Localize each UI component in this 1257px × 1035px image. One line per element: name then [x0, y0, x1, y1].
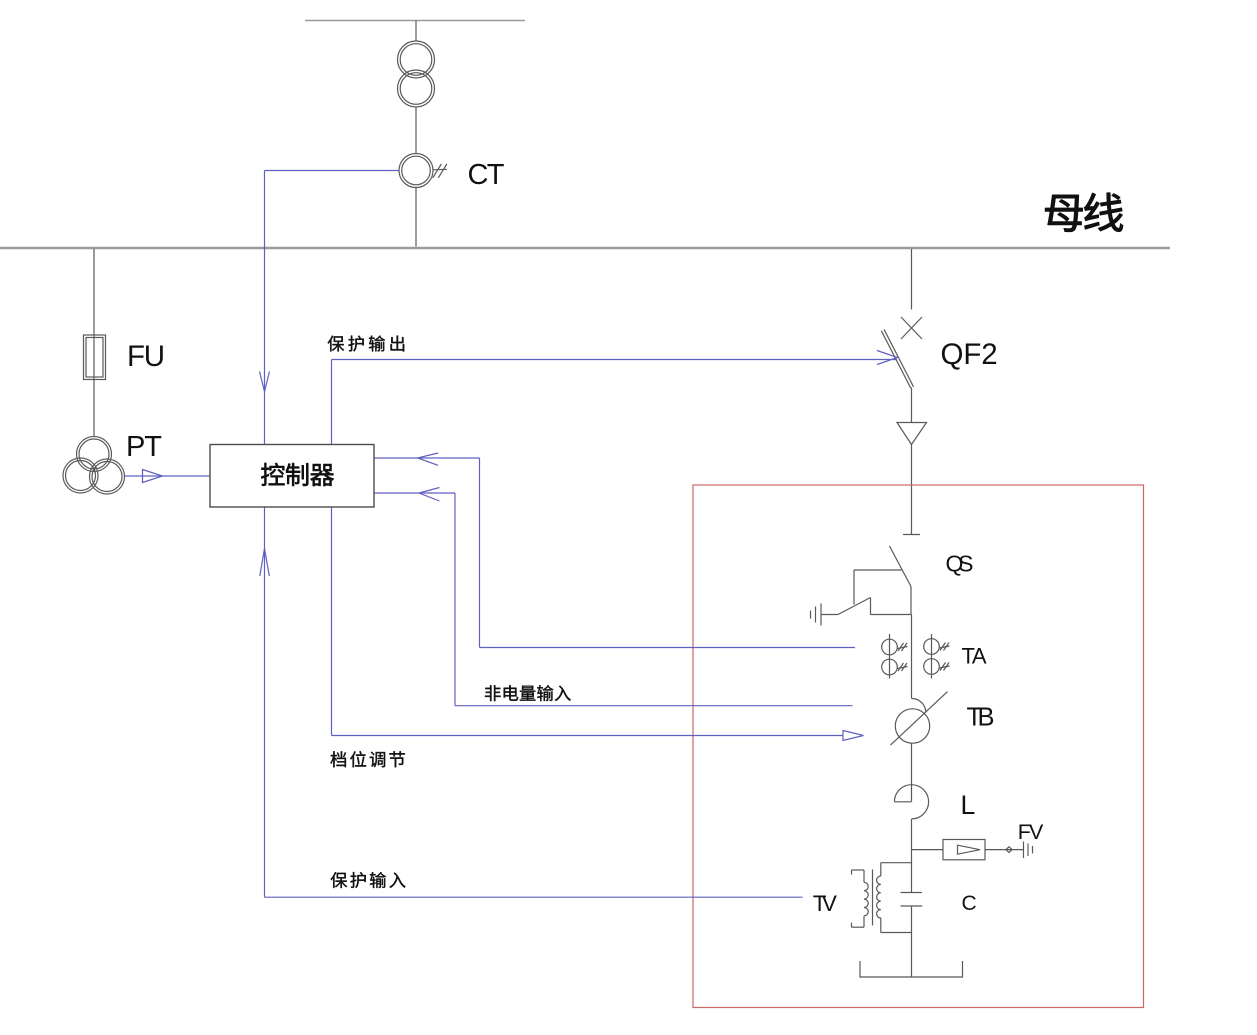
wire CT secondary to controller (down arrow) [260, 171, 399, 445]
wire TB to reactor L [911, 743, 913, 802]
svg-text:FU: FU [127, 340, 165, 373]
wire L down through FV tap to capacitor [911, 819, 913, 893]
busbar 母线 [0, 247, 1170, 249]
wire from feeder to transformer [415, 21, 417, 42]
wire TA secondary to controller (left arrow) [374, 453, 855, 648]
current transformers TA (two cores, two secondaries) [882, 634, 950, 679]
disconnector QS with earthing switch [821, 546, 912, 615]
svg-text:L: L [961, 790, 976, 820]
wire top feeder line [305, 20, 525, 22]
svg-text:C: C [962, 892, 977, 915]
svg-text:PT: PT [126, 431, 162, 463]
wire busbar to fuse FU [93, 249, 95, 437]
svg-text:TA: TA [962, 644, 987, 669]
label 保护输入 [331, 872, 348, 888]
voltage transformer PT (three double circles) [63, 437, 125, 495]
controller box 控制器 [210, 445, 374, 508]
label 母线 [1045, 195, 1082, 232]
transformer T (two-winding, double-circle) [398, 41, 435, 107]
wire QS to TA [911, 615, 913, 699]
node QS fixed contact bar [903, 534, 920, 536]
label 非电量输入 [485, 685, 501, 701]
node equipment enclosure (red box) [693, 485, 1144, 1008]
svg-text:QS: QS [946, 551, 974, 577]
on-load tap changer TB [891, 692, 948, 746]
ground (QS earthing) [811, 604, 822, 626]
voltage transformer TV secondary winding [852, 870, 869, 927]
wire PT to controller (right open arrow) [125, 470, 211, 483]
wire CT to busbar [415, 188, 417, 247]
arrester FV [943, 840, 1024, 860]
ground (FV) [1024, 842, 1033, 859]
capacitor C [901, 893, 923, 907]
wire capacitor to tank bracket [911, 906, 913, 977]
svg-text:FV: FV [1018, 820, 1044, 844]
wire 非电量输入 to controller (left arrow) [374, 488, 853, 706]
label 控制器 [261, 463, 284, 486]
wire QF2 to QS contact [911, 445, 913, 535]
arrester FV branch wire [912, 849, 944, 851]
voltage transformer TV primary winding [877, 863, 912, 933]
wire 保护输出 controller to QF2 [332, 351, 898, 445]
wire 档位调节 controller to TB (right arrow) [332, 507, 864, 741]
label 保护输出 [328, 336, 345, 352]
wire transformer to CT [415, 107, 417, 154]
svg-text:TV: TV [813, 891, 837, 916]
svg-text:QF2: QF2 [941, 338, 998, 371]
svg-text:CT: CT [468, 159, 505, 191]
wire 保护输入 TV to controller (up arrow) [260, 507, 803, 897]
transformer TV core [872, 870, 874, 926]
breaker QF2 wire from busbar [911, 249, 913, 310]
node tank bracket [860, 961, 963, 977]
svg-text:TB: TB [967, 703, 995, 731]
breaker QF2 [881, 317, 926, 445]
reactor L [894, 785, 928, 819]
label 档位调节 [330, 751, 346, 767]
current transformer CT [399, 154, 447, 188]
fuse FU [84, 335, 106, 380]
